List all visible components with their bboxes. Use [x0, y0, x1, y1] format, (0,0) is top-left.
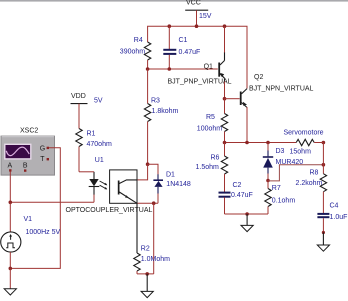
node rail-R5R6	[223, 141, 227, 145]
node rail-VCC	[195, 24, 199, 28]
resistor R5	[197, 99, 228, 143]
optocoupler U1 box	[95, 157, 137, 203]
node emitter net	[152, 201, 156, 205]
svg-text:R6: R6	[211, 155, 220, 162]
node R3-D1-opto	[146, 162, 150, 166]
svg-text:C4: C4	[330, 203, 339, 210]
wire emitter net	[137, 202, 158, 204]
svg-text:VCC: VCC	[186, 0, 201, 7]
node left net	[9, 201, 13, 205]
svg-text:1000Hz 5V: 1000Hz 5V	[26, 229, 61, 236]
ground under R2	[141, 274, 153, 298]
svg-text:1.0Mohm: 1.0Mohm	[141, 256, 170, 263]
diode D1 1N4148	[153, 172, 191, 204]
node rail-Q1	[223, 24, 227, 28]
resistor Servomotore 15ohm (horizontal)	[284, 130, 324, 146]
svg-text:B: B	[23, 163, 28, 170]
svg-text:0.47uF: 0.47uF	[231, 192, 253, 199]
top window edge strip	[0, 0, 348, 2]
resistor R6	[196, 143, 228, 193]
capacitor C1	[163, 26, 200, 69]
wire VDD stem	[78, 104, 80, 129]
svg-text:A: A	[8, 162, 13, 169]
wire VCC stem	[196, 10, 198, 26]
svg-text:Q2: Q2	[254, 74, 263, 81]
svg-text:Servomotore: Servomotore	[284, 130, 324, 137]
svg-text:T: T	[40, 156, 45, 163]
svg-text:100ohm: 100ohm	[197, 126, 222, 133]
svg-text:1N4148: 1N4148	[166, 181, 191, 188]
svg-text:G: G	[40, 145, 45, 152]
ground under V1	[4, 268, 16, 295]
resistor R2	[134, 246, 170, 274]
svg-text:R8: R8	[310, 170, 319, 177]
wire scope A down	[9, 172, 11, 203]
wire R1 to LED	[79, 171, 94, 173]
svg-text:0.1ohm: 0.1ohm	[272, 198, 296, 205]
svg-text:XSC2: XSC2	[20, 127, 38, 134]
resistor R1	[76, 129, 112, 172]
wire R2 bottom net	[137, 273, 154, 275]
wire opto emitter to R2 (black)	[136, 203, 138, 253]
diode D3 MUR420	[263, 143, 311, 181]
ground under C4	[317, 233, 329, 252]
node Q1-Q2-R5	[223, 97, 227, 101]
svg-text:R2: R2	[141, 246, 150, 253]
wire R3 to D1 node	[147, 122, 149, 165]
node rail-Q2e	[245, 141, 249, 145]
node gnd3	[245, 212, 249, 216]
ground under C2/R7	[241, 214, 253, 232]
wire Q1 collector up	[224, 26, 226, 52]
svg-text:C2: C2	[233, 182, 242, 189]
wire Q2 emitter down	[246, 107, 248, 143]
svg-text:OPTOCOUPLER_VIRTUAL: OPTOCOUPLER_VIRTUAL	[66, 207, 153, 214]
capacitor C4	[317, 203, 347, 233]
transistor Q1 BJT_PNP_VIRTUAL	[168, 52, 232, 86]
wire bottom net C2-R7	[225, 213, 269, 215]
wire Q2 base	[225, 98, 240, 100]
svg-text:U1: U1	[95, 157, 104, 164]
svg-text:470ohm: 470ohm	[87, 141, 112, 148]
wire down to R2 bottom	[153, 203, 155, 274]
wire opto collector	[138, 164, 148, 180]
svg-text:5V: 5V	[94, 98, 103, 105]
power VCC symbol	[185, 0, 212, 20]
oscilloscope XSC2	[1, 127, 55, 175]
opto phototransistor	[118, 180, 137, 203]
wire LED cathode down	[93, 195, 95, 203]
svg-text:15V: 15V	[199, 13, 212, 20]
node rail-D3	[266, 141, 270, 145]
wire servo right down to R8	[322, 143, 324, 174]
transistor Q2 BJT_NPN_VIRTUAL	[240, 74, 314, 108]
resistor R8	[296, 170, 327, 214]
wire R7 node to R8 column	[268, 165, 323, 181]
svg-text:R5: R5	[206, 114, 215, 121]
svg-text:C1: C1	[179, 37, 188, 44]
svg-text:R4: R4	[134, 37, 143, 44]
resistor R3	[144, 69, 178, 122]
node gnd2	[145, 272, 149, 276]
node D3-R7	[266, 179, 270, 183]
svg-text:15ohm: 15ohm	[290, 149, 312, 156]
svg-text:R3: R3	[151, 98, 160, 105]
node V1-gnd	[9, 267, 13, 271]
wire D1 branch	[148, 164, 158, 174]
svg-text:1.5ohm: 1.5ohm	[196, 164, 220, 171]
source V1	[1, 202, 61, 252]
opto light arrows	[100, 181, 108, 189]
node rail-C1	[168, 24, 172, 28]
node mid-R4	[146, 67, 150, 71]
svg-text:2.2kohm: 2.2kohm	[296, 180, 323, 187]
svg-text:Q1: Q1	[204, 64, 213, 71]
svg-text:BJT_PNP_VIRTUAL: BJT_PNP_VIRTUAL	[168, 79, 232, 86]
svg-text:BJT_NPN_VIRTUAL: BJT_NPN_VIRTUAL	[249, 86, 314, 93]
svg-text:V1: V1	[24, 216, 33, 223]
node servo right corner	[322, 141, 326, 145]
svg-text:R1: R1	[87, 131, 96, 138]
capacitor C2	[219, 182, 253, 214]
node R8 column mid	[322, 163, 326, 167]
wire scope G loop	[10, 148, 60, 269]
wire left net horizontal	[10, 201, 94, 203]
svg-text:D3: D3	[276, 148, 285, 155]
opto LED	[89, 172, 100, 195]
svg-text:1.0uF: 1.0uF	[330, 214, 348, 221]
svg-text:R7: R7	[272, 185, 281, 192]
wire Q1 emitter down	[224, 82, 226, 99]
svg-text:D1: D1	[166, 172, 175, 179]
wire servo rail	[225, 142, 297, 144]
node mid-C1	[168, 67, 172, 71]
wire V1 bottom	[9, 252, 11, 268]
resistor R4	[120, 37, 151, 60]
svg-text:0.47uF: 0.47uF	[179, 49, 201, 56]
svg-text:390ohm: 390ohm	[120, 49, 145, 56]
node C4-gnd	[322, 231, 325, 234]
wire mid rail	[148, 68, 218, 70]
svg-text:VDD: VDD	[71, 93, 86, 100]
svg-text:1.8kohm: 1.8kohm	[152, 108, 179, 115]
resistor R7	[265, 181, 296, 215]
wire R4 bottom	[147, 60, 149, 69]
power VDD symbol	[71, 93, 103, 105]
wire top rail	[148, 26, 247, 88]
